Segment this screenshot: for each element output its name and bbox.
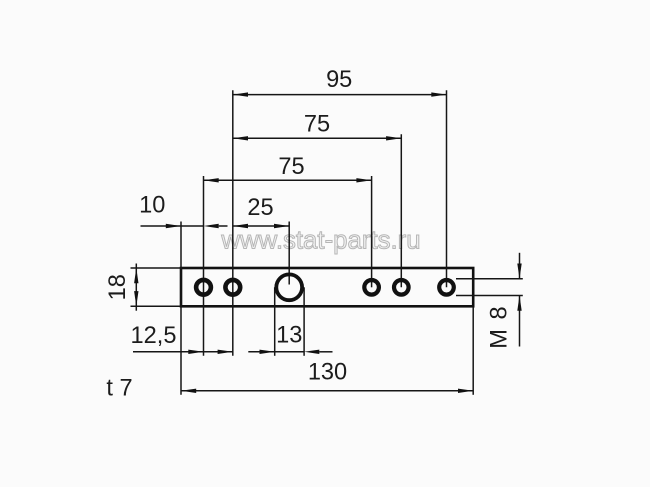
svg-text:M 8: M 8 xyxy=(487,305,513,349)
extension line right edge xyxy=(472,306,474,395)
dimension M8 leader lines xyxy=(456,279,523,296)
svg-text:95: 95 xyxy=(326,67,352,93)
hole H4 xyxy=(364,280,379,295)
dimension 25 line xyxy=(233,195,289,228)
svg-text:130: 130 xyxy=(308,360,347,386)
svg-text:12,5: 12,5 xyxy=(131,323,177,349)
dimension 75 lower line xyxy=(204,154,372,183)
svg-text:10: 10 xyxy=(139,193,165,219)
extension line left edge xyxy=(180,222,182,395)
bar outline xyxy=(181,268,473,306)
svg-text:75: 75 xyxy=(304,111,330,137)
extension line hole H4 center xyxy=(371,176,373,287)
hole H5 xyxy=(394,280,409,295)
hole H1 xyxy=(196,280,211,295)
extension line big hole left tangent xyxy=(274,287,276,356)
extension line big hole center xyxy=(288,222,290,285)
extension line hole H1 center xyxy=(203,176,205,356)
dimension 18 extension lines xyxy=(131,268,181,306)
hole H2 xyxy=(225,280,240,295)
extension line hole H6 center xyxy=(446,90,448,287)
big hole 13mm xyxy=(276,274,302,300)
dimension 75 upper line xyxy=(233,111,401,140)
hole H6 xyxy=(439,280,454,295)
watermark www.stat-parts.ru xyxy=(220,227,420,255)
extension line hole H5 center xyxy=(400,134,402,287)
dimension 12,5 line xyxy=(131,323,233,354)
svg-text:25: 25 xyxy=(247,195,273,221)
dimension 95 line xyxy=(233,67,447,97)
svg-text:t 7: t 7 xyxy=(106,376,132,402)
dimension 10 line xyxy=(139,193,227,229)
extension line big hole right tangent xyxy=(303,287,305,356)
svg-text:75: 75 xyxy=(278,154,304,180)
dimension 18 line xyxy=(105,264,139,311)
svg-text:18: 18 xyxy=(105,274,131,300)
dimension M8 line xyxy=(487,253,522,349)
dimension 13 line xyxy=(248,322,332,354)
extension line hole H2 center xyxy=(232,90,234,356)
svg-text:13: 13 xyxy=(276,322,302,348)
dimension 130 line xyxy=(181,360,473,394)
thickness label t 7 xyxy=(106,376,132,402)
svg-text:www.stat-parts.ru: www.stat-parts.ru xyxy=(220,227,420,255)
